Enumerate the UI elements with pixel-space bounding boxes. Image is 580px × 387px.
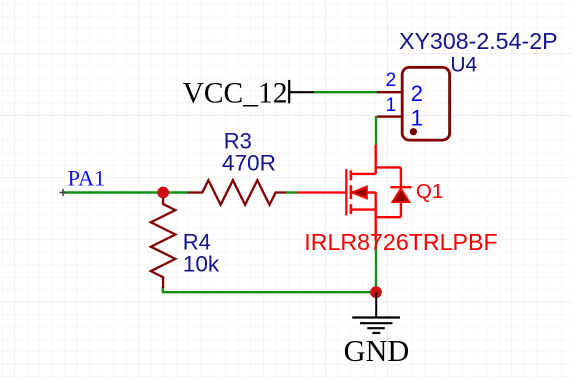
svg-text:IRLR8726TRLPBF: IRLR8726TRLPBF <box>304 229 497 255</box>
drain pin <box>375 145 377 174</box>
pin 1 stub <box>377 115 402 117</box>
source pin vertical <box>375 193 377 241</box>
ground symbol <box>352 292 400 333</box>
svg-text:GND: GND <box>344 334 410 368</box>
body diode vertical <box>400 167 402 217</box>
gate bar <box>345 169 347 215</box>
svg-text:XY308-2.54-2P: XY308-2.54-2P <box>399 28 558 54</box>
body line <box>352 191 376 193</box>
svg-text:10k: 10k <box>183 252 220 277</box>
wire VCC to U4 pin2 <box>314 91 378 93</box>
svg-text:2: 2 <box>386 70 397 91</box>
channel bar top <box>350 170 353 180</box>
svg-text:1: 1 <box>411 105 423 130</box>
svg-text:470R: 470R <box>222 150 276 175</box>
channel bar bottom <box>350 204 353 214</box>
junction node GND <box>370 286 382 298</box>
wire R4 bottom to GND node <box>163 287 376 292</box>
wire R3 to Q1 gate <box>286 191 297 193</box>
diode top tap <box>376 166 401 168</box>
transistor Q1 (NMOS) <box>297 145 412 241</box>
resistor R3 <box>187 180 286 205</box>
body arrow <box>352 187 367 199</box>
svg-text:PA1: PA1 <box>68 166 106 191</box>
gate lead <box>297 191 346 193</box>
polarity dot U4 <box>410 128 417 135</box>
junction node PA1/R4 <box>157 187 169 199</box>
diode cathode bar <box>390 186 411 188</box>
drain tap <box>351 173 376 175</box>
connector U4 box <box>402 67 449 140</box>
source tap <box>351 208 376 210</box>
svg-text:Q1: Q1 <box>416 180 443 203</box>
wire U4 pin1 to Q1 drain <box>375 116 377 146</box>
svg-text:1: 1 <box>386 95 397 116</box>
pin 2 stub <box>377 91 402 93</box>
svg-text:VCC_12: VCC_12 <box>183 77 288 109</box>
svg-text:2: 2 <box>411 81 423 106</box>
resistor R4 <box>151 193 176 289</box>
wire end cross marker <box>60 189 67 196</box>
wire Q1 source to GND node <box>375 240 377 292</box>
channel bar middle <box>350 185 353 199</box>
svg-text:U4: U4 <box>450 54 477 77</box>
diode bottom tap <box>376 216 401 218</box>
wire PA1 horizontal <box>64 191 187 193</box>
diode triangle <box>393 189 410 202</box>
power port VCC_12 <box>289 80 314 103</box>
